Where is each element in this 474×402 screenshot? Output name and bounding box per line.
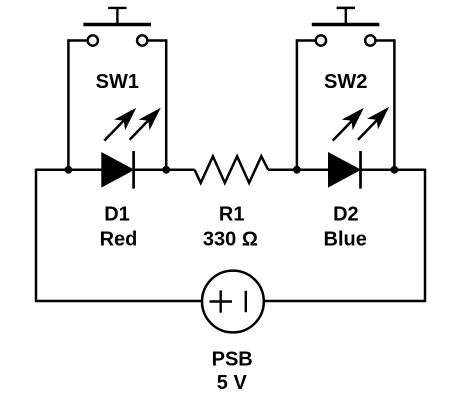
LED D2 <box>329 151 361 189</box>
wire rail resistor to D2 <box>268 169 328 172</box>
wire left riser <box>35 169 38 301</box>
resistor R1 <box>195 156 269 183</box>
svg-text:Blue: Blue <box>324 229 367 251</box>
svg-text:5 V: 5 V <box>217 372 248 394</box>
LED D2 light arrow 2 <box>358 102 395 140</box>
svg-text:Red: Red <box>100 229 138 251</box>
LED D2 light arrow 1 <box>333 102 370 140</box>
LED D1 light arrow 1 <box>104 102 141 140</box>
svg-text:D1: D1 <box>104 203 130 225</box>
svg-text:D2: D2 <box>333 203 359 225</box>
junction node D1 left <box>65 166 73 174</box>
wire rail D2 to right corner <box>361 169 426 172</box>
wire SW2 right drop <box>393 39 396 170</box>
wire SW2 left drop <box>296 39 299 170</box>
junction node D2 left <box>293 166 301 174</box>
svg-text:330 Ω: 330 Ω <box>203 229 258 251</box>
junction node D1 right <box>162 166 170 174</box>
pushbutton SW1 <box>83 8 151 46</box>
wire SW1 left drop <box>67 39 70 170</box>
wire SW2 left stub <box>297 39 316 42</box>
wire SW1 left stub <box>68 39 87 42</box>
svg-text:SW2: SW2 <box>324 71 367 93</box>
wire SW2 right stub <box>375 39 394 42</box>
wire bottom rail left <box>35 300 202 303</box>
pushbutton SW2 <box>312 8 380 46</box>
wire rail D1 to resistor <box>134 169 195 172</box>
wire right riser <box>424 169 427 301</box>
voltage source PSB <box>202 271 264 333</box>
LED D1 <box>102 151 134 189</box>
wire bottom rail right <box>264 300 426 303</box>
LED D1 light arrow 2 <box>130 102 167 139</box>
wire SW1 right drop <box>165 39 168 170</box>
junction node D2 right <box>391 166 399 174</box>
svg-text:SW1: SW1 <box>96 71 139 93</box>
svg-text:PSB: PSB <box>212 348 253 370</box>
svg-text:R1: R1 <box>219 203 245 225</box>
wire SW1 right stub <box>147 39 166 42</box>
wire top rail left segment <box>36 169 102 172</box>
